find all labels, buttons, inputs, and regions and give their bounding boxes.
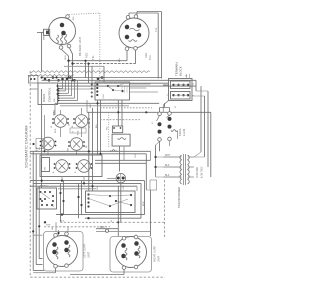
svg-text:BRN: BRN	[143, 201, 145, 206]
P1 terminal top	[66, 15, 70, 19]
wire clock motor hatch	[121, 87, 123, 94]
svg-text:WHT: WHT	[36, 146, 39, 152]
wire oven ctl lead 3 drop	[68, 80, 70, 93]
clock plug terminal 1	[91, 84, 93, 86]
wire P2 drop right A	[157, 13, 159, 79]
terminal block TB outer	[169, 79, 193, 101]
wire TB row2 bus	[174, 94, 189, 96]
P3 element coil A	[56, 247, 58, 259]
wire oven ctl lead 2 run	[58, 90, 66, 92]
junction	[43, 150, 45, 152]
wire jog to feed	[156, 141, 160, 145]
wire right bundle 2	[204, 96, 206, 157]
junction	[67, 76, 69, 78]
wire xfmr lead 3	[164, 176, 182, 178]
wire dashed run y222	[61, 221, 101, 223]
P4 outline box	[110, 237, 152, 273]
junction	[41, 204, 43, 206]
junction	[59, 192, 61, 194]
wire oven ctl lead 6 run	[58, 100, 78, 102]
clock box	[95, 82, 130, 100]
P2 element jumper	[130, 28, 140, 31]
wire jog	[156, 176, 164, 178]
wire broil lead up A	[159, 108, 161, 113]
svg-text:BLK: BLK	[165, 165, 170, 167]
wire P2 top run A	[129, 12, 158, 14]
P3 terminal bottom A	[54, 264, 58, 268]
wire oven ctl lead 1 run	[58, 88, 63, 90]
connector pin	[30, 78, 32, 80]
wire clock top tick	[122, 82, 124, 83]
splice	[69, 76, 72, 79]
wire clock bottom tick	[99, 99, 101, 100]
wire clock top tick	[107, 82, 109, 83]
surface unit P1 (top-left)	[49, 18, 76, 45]
junction	[84, 60, 86, 62]
oven ctl pin	[58, 90, 60, 92]
wire clock bottom tick	[109, 99, 111, 100]
wire run y218	[85, 217, 141, 219]
thermostat box small	[112, 126, 122, 133]
svg-text:WHT: WHT	[46, 225, 51, 227]
splice	[66, 78, 69, 81]
selector pin	[41, 200, 43, 202]
clock terminal 2	[96, 87, 98, 89]
junction	[91, 185, 93, 187]
wire S3 bottom lead	[47, 150, 49, 155]
svg-text:SW: SW	[45, 166, 47, 171]
junction	[57, 232, 59, 234]
oven ctl pin	[58, 88, 60, 90]
thermo pin	[120, 127, 122, 129]
junction	[88, 150, 90, 152]
transformer primary	[180, 155, 182, 184]
wire run y105	[60, 105, 129, 107]
junction	[38, 225, 40, 227]
wire S1 top lead	[60, 110, 62, 115]
connector pin	[34, 78, 36, 80]
P3 terminal top A	[54, 233, 58, 237]
wire run y151	[30, 150, 150, 152]
svg-text:HI: HI	[73, 131, 75, 133]
wire drop clock to lock 2	[121, 100, 123, 126]
svg-text:115V 60C: 115V 60C	[196, 167, 199, 178]
wire right bundle 3	[207, 91, 209, 167]
svg-text:BLOCK: BLOCK	[179, 66, 183, 76]
junction	[55, 76, 57, 78]
wire P3 lead 0	[33, 234, 42, 236]
switch assembly terminal strip	[42, 158, 50, 172]
wire xfmr lead 1	[164, 156, 182, 158]
wire run y186	[30, 185, 137, 187]
wire run y231	[96, 230, 151, 232]
junction	[41, 76, 43, 78]
P2 terminal bottom B	[134, 47, 138, 51]
wire TB left lead	[163, 84, 169, 86]
wire left bundle x39	[38, 186, 40, 258]
wire S4 bottom lead	[76, 151, 78, 156]
wire run y228 BLK	[96, 228, 118, 230]
junction	[109, 205, 111, 207]
junction	[96, 102, 98, 104]
svg-text:RED: RED	[78, 130, 80, 135]
clock contact b	[112, 89, 114, 91]
wire clock top tick	[102, 82, 104, 83]
junction	[57, 89, 59, 91]
wire harness run 3	[58, 82, 169, 84]
wire plug tick	[90, 92, 93, 94]
wire drop x92	[92, 108, 94, 191]
wire drop clock to lock	[117, 100, 119, 126]
P2 element	[129, 40, 137, 42]
wire oven ctl lead 4 drop	[71, 80, 73, 95]
svg-text:LO: LO	[89, 125, 91, 128]
svg-text:Y-G: Y-G	[155, 28, 158, 32]
wire P3 lead 2	[36, 264, 42, 266]
wire P2 top run B	[137, 11, 162, 13]
wire P1 top dotted lead	[69, 13, 100, 15]
wire S5 drop	[61, 177, 63, 181]
svg-text:WH: WH	[52, 226, 54, 230]
svg-text:ELEM: ELEM	[183, 129, 186, 136]
S3 lead dot	[32, 143, 34, 145]
wire plug tick	[90, 88, 93, 90]
svg-text:BLK: BLK	[100, 226, 105, 229]
svg-text:TERMINAL: TERMINAL	[175, 61, 179, 76]
wire P3 bottom run	[33, 272, 55, 274]
svg-text:SCHEMATIC DIAGRAM: SCHEMATIC DIAGRAM	[25, 125, 29, 168]
svg-text:LF: LF	[51, 125, 53, 128]
wire P2 top lead B	[136, 12, 138, 15]
wire jog	[156, 166, 164, 168]
svg-text:RED: RED	[55, 128, 57, 133]
wire clock bottom tick	[104, 99, 106, 100]
wire xfmr tap 3	[188, 176, 194, 178]
wire tap jog 1b	[194, 156, 205, 158]
wire selector wire 3	[110, 195, 131, 196]
wire selector blade x	[110, 199, 128, 206]
wire link x150	[150, 151, 152, 160]
junction	[117, 221, 119, 223]
svg-text:L2: L2	[175, 106, 177, 108]
svg-text:BLK: BLK	[96, 123, 98, 128]
junction	[62, 200, 64, 202]
wire console inner dashed run	[100, 221, 165, 223]
wire P2 drop right B	[161, 12, 163, 79]
svg-text:TRANSFORMER: TRANSFORMER	[177, 187, 181, 208]
wire P3 lead 1	[33, 270, 44, 272]
junction	[44, 221, 46, 223]
console ledge zigzag	[28, 74, 74, 76]
small zig bottom	[110, 150, 117, 152]
wire run y60	[69, 60, 128, 62]
wire left bundle x36	[35, 154, 37, 265]
P1 receptacle contact	[46, 31, 49, 35]
P1 terminal bottom A	[59, 46, 63, 50]
console corner connector	[28, 76, 38, 84]
wire console bottom edge	[30, 276, 165, 278]
wire run y188	[58, 188, 96, 190]
wire TB tick r2	[192, 95, 194, 97]
wire drop x141	[140, 183, 142, 218]
oven control box	[38, 83, 58, 105]
wire drop x150 to P4 box	[150, 190, 152, 236]
wire interbox drop 3	[78, 183, 80, 218]
svg-text:RF: RF	[72, 124, 74, 128]
wire oven ctl lead 2 drop	[65, 80, 67, 91]
wire drop from P1 to console	[41, 32, 43, 71]
P3 element coil B	[68, 245, 70, 257]
svg-text:LEFT SURF: LEFT SURF	[84, 243, 87, 258]
wire broil top link	[160, 107, 170, 109]
junction	[115, 200, 117, 202]
P1 element coil B	[61, 35, 63, 44]
svg-text:WHT: WHT	[165, 155, 171, 157]
wire S6 drop	[83, 177, 85, 184]
wire TB tick r1	[192, 83, 194, 85]
wire drop clock 2	[100, 100, 102, 155]
junction	[57, 85, 59, 87]
wire clock blade 2	[118, 84, 124, 87]
wire drop x144	[144, 181, 146, 215]
wire xfmr lead 2	[164, 166, 182, 168]
selector pin	[52, 195, 54, 197]
wire selector wire 2	[89, 199, 111, 207]
TB row1 terminal 3	[182, 84, 184, 86]
clock terminal 4	[96, 94, 98, 96]
wire oven ctl left lead	[30, 88, 38, 90]
wire P4 bottom run	[70, 274, 124, 276]
P1 element coil C	[65, 34, 67, 43]
svg-text:YEL: YEL	[107, 126, 109, 130]
wire clock switch blade	[108, 86, 113, 90]
oven ctl pin	[58, 100, 60, 102]
wire TB top tick 2	[189, 74, 191, 79]
splice ring	[105, 229, 108, 232]
clock plug terminal 3	[91, 92, 93, 94]
wire drop clock left	[86, 100, 88, 112]
selector pin	[52, 200, 54, 202]
wire run y163	[95, 162, 146, 164]
svg-text:B: B	[75, 171, 77, 173]
wire TB top tick	[186, 74, 188, 79]
junction	[87, 217, 89, 219]
wire dashed run y107	[100, 107, 152, 109]
junction	[32, 230, 34, 232]
wire run y160	[95, 159, 151, 161]
junction	[83, 182, 85, 184]
svg-text:BROIL: BROIL	[179, 127, 182, 136]
wire broil lead down B	[169, 141, 171, 146]
thermostat resistor	[118, 138, 127, 140]
wire P2 drop B	[135, 50, 137, 64]
svg-text:UNIT: UNIT	[88, 251, 91, 258]
wire S2-S4 link	[81, 127, 83, 137]
wire S1 feed	[53, 110, 55, 115]
splice	[52, 76, 55, 79]
svg-text:L1: L1	[53, 204, 55, 207]
wire clock top tick	[117, 82, 119, 83]
surface unit P4 (bottom-right)	[116, 237, 147, 268]
wire oven ctl lead 6 drop	[77, 80, 79, 100]
svg-text:L1: L1	[152, 122, 154, 124]
splice	[57, 79, 60, 82]
wire drop clock 1	[97, 100, 99, 155]
svg-text:SW BLK: SW BLK	[40, 186, 48, 188]
wire dotted drop to clock	[99, 13, 101, 82]
selector terminal 1	[87, 193, 89, 195]
transformer core	[183, 154, 185, 185]
wire clock top tick	[112, 82, 114, 83]
wire drop x92b	[91, 66, 93, 86]
selector terminal 3	[87, 201, 89, 203]
junction	[117, 111, 119, 113]
TB row2 terminal 3	[182, 94, 184, 96]
TB row2 terminal 2	[177, 94, 179, 96]
wire P3 lead 3	[39, 258, 42, 260]
wire drop x137	[136, 186, 138, 191]
wire P1 stub	[43, 35, 45, 41]
splice	[73, 79, 76, 82]
junction	[67, 60, 69, 62]
svg-text:ORN: ORN	[135, 153, 137, 158]
junction	[49, 191, 51, 193]
svg-text:CLK: CLK	[103, 94, 105, 99]
svg-text:BK SURF UNIT: BK SURF UNIT	[78, 36, 82, 56]
wire stub x58	[58, 230, 60, 235]
wire run y103	[55, 102, 159, 104]
wire selector wire 4	[116, 201, 131, 205]
svg-text:A: A	[52, 171, 55, 173]
S4 label plate	[70, 128, 86, 133]
junction	[130, 204, 132, 206]
svg-text:SEL: SEL	[97, 186, 99, 190]
wire dotted drop x108	[108, 112, 110, 148]
svg-text:RED: RED	[145, 52, 148, 58]
surface switch S6	[76, 160, 93, 173]
wire TB row1 bus	[174, 84, 189, 86]
splice	[97, 78, 100, 81]
console top zigzag edge	[30, 71, 150, 73]
svg-text:WHT: WHT	[90, 103, 92, 108]
clock contact d	[121, 90, 123, 92]
splice	[61, 78, 64, 81]
wire drop x88	[88, 112, 90, 191]
wire P1 lead slant	[70, 48, 73, 54]
P4 terminal top A	[122, 236, 126, 240]
switch assembly box	[40, 155, 102, 177]
wire oven ctl lead 1 drop	[62, 80, 64, 88]
svg-text:PL: PL	[111, 219, 113, 222]
wire interbox drop 1	[60, 183, 62, 222]
wire S7 left lead	[107, 178, 116, 180]
wire right bundle 1	[200, 86, 202, 152]
junction	[109, 195, 111, 197]
wire harness run 5	[58, 88, 96, 90]
wire broil lead down A	[159, 141, 161, 151]
wire clock out 3	[130, 91, 159, 93]
wire hook right 1	[195, 80, 197, 91]
surface switch S5	[54, 160, 71, 173]
P4 element coil A	[125, 248, 127, 260]
wire xfmr tap 2	[188, 166, 194, 168]
wire stub to P3 box 2	[67, 226, 69, 232]
oven ctl pin	[58, 97, 60, 99]
wire dashed run y119	[100, 119, 140, 121]
wire P2 top lead A	[128, 13, 130, 16]
wire S1-S3 link	[60, 127, 62, 137]
svg-text:CONTROL: CONTROL	[48, 87, 52, 102]
wire clock out 2	[130, 87, 147, 89]
svg-text:RR: RR	[68, 147, 70, 151]
wire jog	[156, 156, 164, 158]
junction	[145, 111, 147, 113]
wire P3 bottom lead	[55, 268, 57, 273]
P4 terminal bottom A	[122, 266, 126, 270]
wire run y63 dashed	[73, 63, 136, 65]
svg-text:RED: RED	[86, 52, 89, 58]
selector box left	[37, 188, 57, 209]
junction	[51, 204, 53, 206]
wire broil lead up B	[169, 108, 171, 112]
wire drop x120 lamp down	[120, 183, 122, 222]
svg-text:BLK: BLK	[60, 221, 65, 223]
wire left bundle x33	[32, 151, 34, 270]
terminal block row 1	[171, 81, 191, 89]
wire oven ctl lead 5 run	[58, 97, 75, 99]
surface switch S3	[40, 137, 57, 150]
wire jog right	[196, 90, 208, 92]
junction	[130, 194, 132, 196]
clock contact a	[107, 85, 109, 87]
TB row1 terminal 2	[177, 84, 179, 86]
wire drop x88	[88, 64, 90, 84]
wire clock out 1	[130, 83, 151, 85]
wire drop x85	[85, 61, 87, 78]
wire stub to P3 box	[55, 222, 57, 232]
broil resistor	[171, 130, 178, 132]
transformer secondary	[188, 155, 190, 184]
TB row1 terminal 1	[172, 84, 174, 86]
junction	[40, 191, 42, 193]
wire clock int wire 2	[113, 90, 123, 91]
svg-text:YEL: YEL	[92, 55, 95, 60]
wire P1 lead slant	[62, 50, 69, 57]
junction	[71, 62, 73, 64]
wire drop x55	[54, 103, 56, 115]
wire run y180	[30, 180, 144, 182]
P2 terminal top A	[126, 15, 130, 19]
clock plug terminal 4	[91, 96, 93, 98]
surface switch S2	[73, 115, 90, 128]
clock terminal 1	[96, 83, 98, 85]
wire TB tick	[167, 94, 169, 96]
wire interbox drop 4	[81, 181, 83, 215]
surface unit P2 (top-right)	[119, 18, 149, 48]
thermostat box main	[112, 134, 130, 146]
wire P1 drop B	[72, 54, 74, 80]
junction	[61, 213, 63, 215]
splice	[48, 79, 51, 82]
svg-text:HI: HI	[69, 124, 71, 126]
wire jog	[146, 189, 150, 191]
TB row2 terminal 4	[187, 94, 189, 96]
wire oven ctl lead 4 run	[58, 95, 72, 97]
wire S2 top lead	[81, 108, 83, 115]
P3 terminal bottom B	[65, 264, 69, 268]
junction	[77, 196, 79, 198]
wire P1 left lead	[37, 31, 44, 33]
